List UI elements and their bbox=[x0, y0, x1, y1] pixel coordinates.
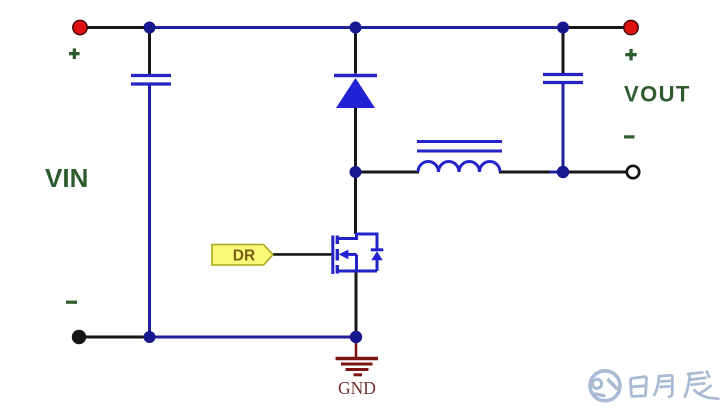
svg-text:VOUT: VOUT bbox=[624, 82, 691, 107]
svg-text:GND: GND bbox=[338, 378, 376, 398]
svg-text:VIN: VIN bbox=[45, 163, 88, 193]
svg-text:DR: DR bbox=[233, 247, 255, 264]
